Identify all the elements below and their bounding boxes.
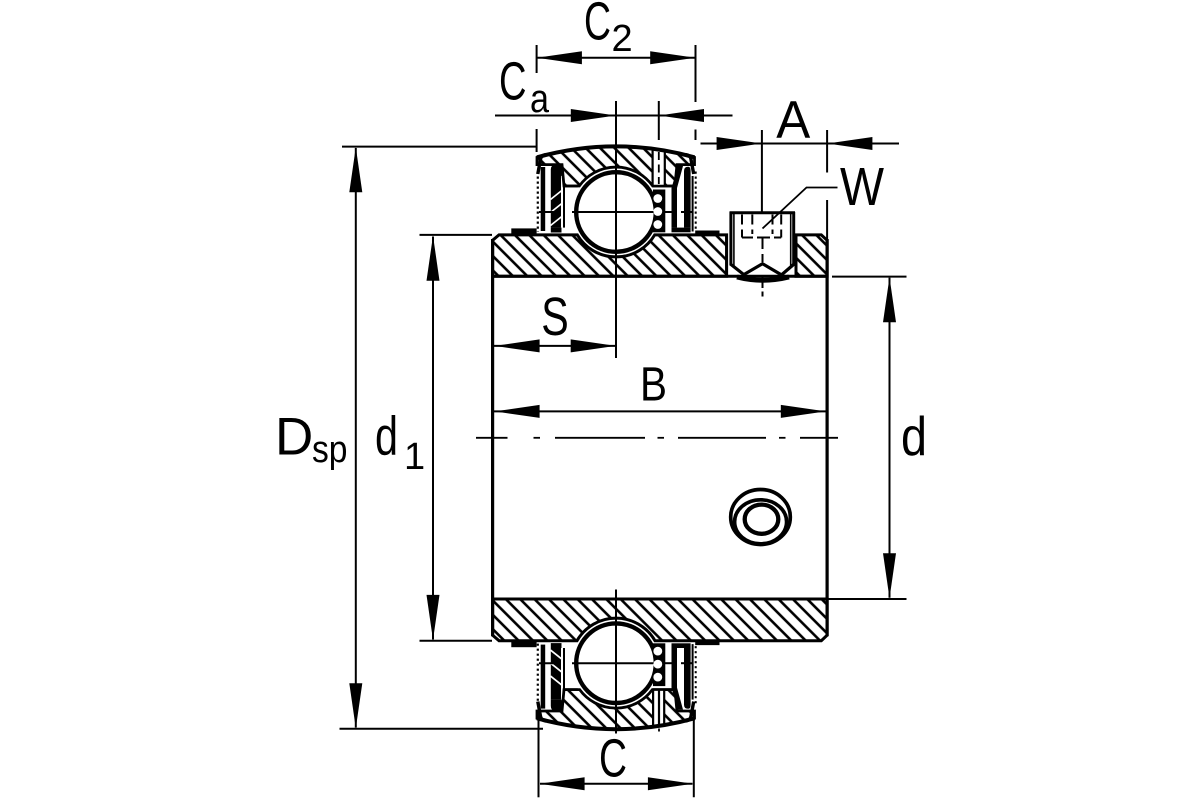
svg-text:2: 2 — [612, 18, 633, 60]
svg-text:D: D — [275, 407, 313, 466]
svg-text:d: d — [375, 404, 398, 466]
svg-text:sp: sp — [312, 429, 348, 471]
svg-text:B: B — [640, 359, 667, 412]
svg-text:W: W — [840, 157, 884, 217]
svg-text:1: 1 — [404, 436, 425, 478]
svg-text:A: A — [776, 91, 811, 150]
svg-text:a: a — [530, 77, 550, 121]
svg-text:C: C — [584, 0, 611, 52]
svg-text:C: C — [599, 729, 627, 789]
svg-text:d: d — [901, 405, 927, 467]
svg-text:C: C — [499, 52, 527, 112]
svg-text:S: S — [541, 287, 569, 347]
